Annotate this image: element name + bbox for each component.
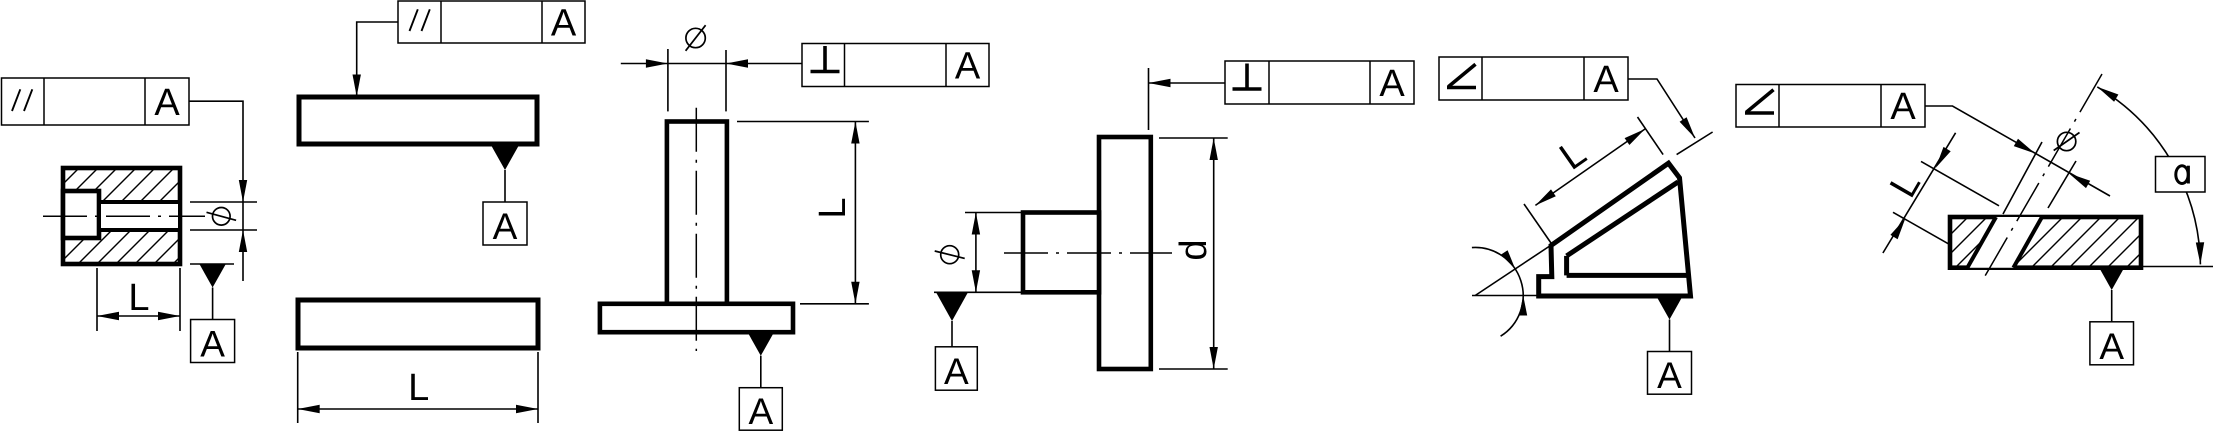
- angle arc with arrows (fig5): [1472, 247, 1527, 336]
- diameter extension lines (fig3): [668, 49, 726, 111]
- datum feature symbol A (fig4): [935, 292, 977, 392]
- svg-text:A: A: [1890, 86, 1916, 128]
- diameter extension lines (fig6): [2003, 142, 2076, 214]
- svg-text:A: A: [955, 46, 981, 88]
- svg-text:A: A: [2099, 326, 2124, 367]
- datum feature symbol A on upper plate (fig2): [483, 147, 527, 248]
- phi symbol (fig6): [2054, 132, 2080, 150]
- feature control frame FCF3 (perpendicularity | A): [802, 44, 989, 88]
- internal rib lines (fig5): [1567, 182, 1689, 275]
- phi symbol (fig1): [207, 208, 237, 226]
- datum feature symbol A (fig6): [2090, 267, 2134, 367]
- angle construction lines (fig5): [1472, 245, 1552, 296]
- label d rotated (fig4): [1173, 239, 1215, 260]
- diameter dimension line with arrows (fig4): [972, 213, 980, 293]
- svg-text:A: A: [1379, 63, 1405, 105]
- counterbore (fig1): [63, 191, 99, 238]
- dimension d extension lines (fig4): [1159, 138, 1228, 369]
- svg-text:A: A: [154, 82, 180, 124]
- bottom extension line (fig6): [2141, 266, 2213, 268]
- leader from FCF5 to slanted surface (fig5): [1628, 79, 1695, 138]
- leader from FCF1 to diameter dimension line: [189, 101, 247, 202]
- svg-text:A: A: [748, 391, 773, 432]
- post (fig3 vertical pin): [667, 122, 727, 304]
- slanted hole (fig6): [1967, 217, 2042, 268]
- centerline (fig4 hub axis): [1004, 252, 1172, 254]
- datum feature symbol A (fig1): [190, 264, 235, 365]
- dimension L (fig3): [737, 122, 869, 304]
- lower plate (fig2): [298, 300, 538, 348]
- svg-text:A: A: [944, 351, 969, 392]
- svg-text:L: L: [128, 277, 149, 319]
- svg-text:A: A: [1593, 59, 1619, 101]
- dimension L along slope (fig5): [1524, 117, 1663, 243]
- angle dimension arc (fig6): [2097, 87, 2204, 265]
- feature control frame FCF6 (angularity | A): [1736, 85, 1925, 129]
- bore (fig1): [99, 202, 180, 230]
- flange plate (fig4): [1099, 137, 1151, 369]
- svg-text:A: A: [1657, 355, 1682, 396]
- diameter extension lines (fig4): [934, 213, 1024, 293]
- datum feature symbol A (fig5): [1648, 296, 1692, 396]
- dimension L (fig2): [298, 352, 538, 423]
- feature control frame FCF2 (parallelism // | A): [398, 1, 585, 45]
- svg-text:A: A: [200, 324, 225, 365]
- svg-text:L: L: [408, 367, 429, 409]
- diameter dimension line with arrows (fig1): [239, 202, 247, 281]
- base plate (fig3): [600, 304, 793, 332]
- dimension L (fig1): [97, 268, 180, 331]
- hub (fig4): [1023, 213, 1099, 293]
- part body (fig1 hatched cylinder section): [30, 150, 200, 290]
- upper plate (fig2): [299, 97, 537, 144]
- feature control frame FCF1 (parallelism // | A): [2, 78, 190, 125]
- diameter extension lines (fig1): [190, 202, 257, 230]
- datum feature symbol A (fig3): [739, 332, 782, 432]
- phi symbol (fig3): [686, 25, 706, 51]
- leader from FCF4 to plate face (fig4): [1149, 79, 1226, 87]
- leader from FCF2 to top surface: [353, 22, 399, 97]
- wedge body (fig5): [1539, 163, 1691, 296]
- face extension line (fig4): [1148, 68, 1150, 130]
- slanted-surface extension line beyond peak (fig5): [1677, 132, 1713, 155]
- svg-text:A: A: [551, 3, 577, 45]
- feature control frame FCF4 (perpendicularity | A): [1225, 61, 1414, 105]
- dimension d line with arrows (fig4): [1210, 138, 1218, 369]
- svg-text:A: A: [493, 206, 518, 247]
- hole centerline (fig6): [1985, 74, 2102, 276]
- diameter dimension line with arrows and leader to FCF3 (fig3): [621, 59, 802, 67]
- svg-text:d: d: [1173, 239, 1215, 260]
- feature control frame FCF5 (angularity | A): [1439, 57, 1628, 101]
- leader from FCF6 merged with diameter dimension line (fig6): [1925, 106, 2110, 196]
- centerline (fig3 post axis): [695, 108, 697, 351]
- centerline (fig1 bore axis): [43, 215, 205, 217]
- hatched bar (fig6): [1930, 200, 2160, 290]
- dimension L along hole axis (fig6): [1882, 133, 1999, 256]
- phi symbol rotated (fig4): [935, 246, 965, 264]
- angle label box with alpha (fig6): [2156, 157, 2206, 193]
- svg-text:L: L: [812, 197, 854, 218]
